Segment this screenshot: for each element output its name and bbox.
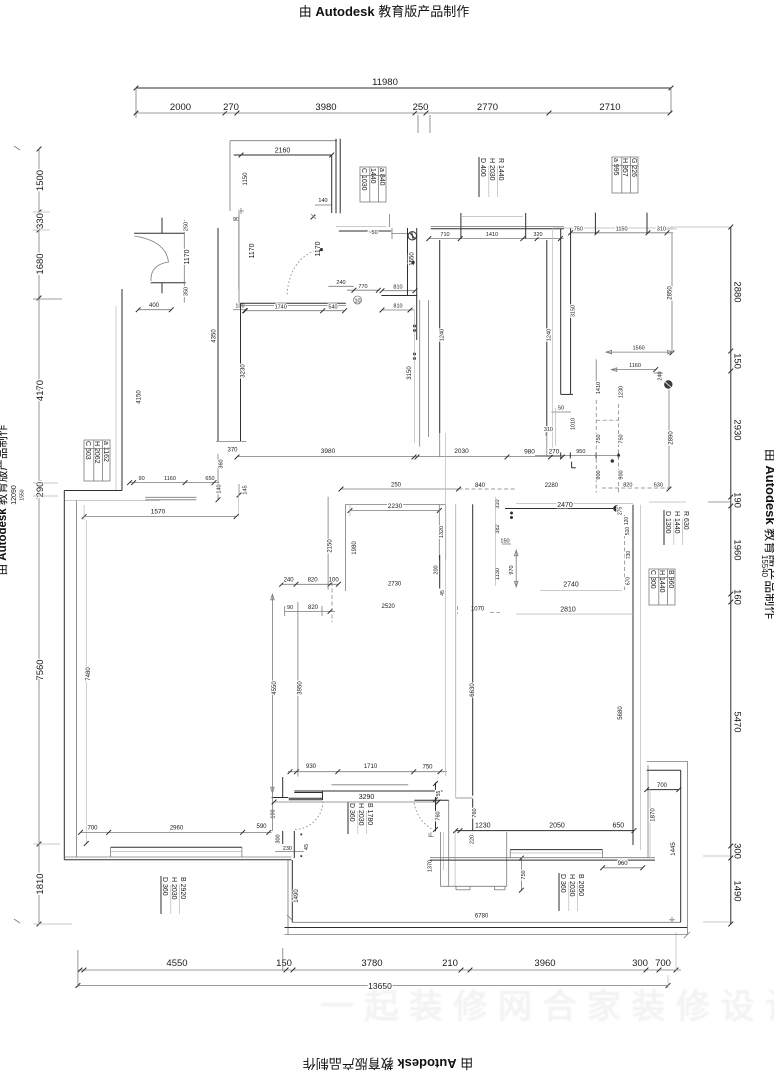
dim total bottom 13650: [78, 985, 668, 987]
dim 1160 with arrow: [611, 369, 656, 371]
svg-text:200: 200: [434, 565, 440, 574]
dim 3290: [274, 801, 438, 803]
svg-text:300: 300: [276, 834, 282, 843]
dashed verticals below bath2: [331, 582, 333, 622]
balcony corner marks: [669, 919, 675, 921]
svg-text:4150: 4150: [137, 390, 143, 404]
svg-text:1230: 1230: [619, 386, 625, 398]
svg-text:2710: 2710: [599, 102, 620, 113]
svg-text:900: 900: [619, 470, 625, 479]
dim 400 below entry: [138, 309, 171, 311]
wall jog left of balcony door: [272, 797, 289, 799]
wall pair left of middle room: [407, 228, 409, 296]
dashed dim row 820 630: [602, 487, 672, 489]
bath2 left wall: [344, 505, 346, 592]
svg-text:5680: 5680: [618, 706, 624, 720]
svg-text:810: 810: [393, 304, 402, 310]
svg-text:250: 250: [184, 222, 190, 231]
bedroom west wall pair: [455, 504, 457, 798]
svg-text:320: 320: [533, 232, 542, 238]
svg-text:970: 970: [509, 565, 515, 574]
svg-text:45: 45: [304, 844, 310, 850]
svg-text:900: 900: [596, 470, 602, 479]
living long dim 3950: [297, 602, 299, 777]
svg-text:1410: 1410: [486, 232, 498, 238]
living long dim 4550 arrows: [271, 594, 273, 793]
dim row 270 950: [535, 454, 619, 456]
left edge reference tick: [14, 146, 20, 150]
living bottom inner dim row 930 1710 750: [288, 771, 447, 773]
svg-text:750: 750: [596, 434, 602, 443]
dim column right: 2880 150 2930 190 1960 160 5470 300 1490: [730, 227, 732, 924]
svg-text:210: 210: [442, 958, 458, 969]
svg-text:2160: 2160: [275, 148, 291, 155]
corner mark below bath door: [428, 833, 430, 837]
svg-text:D 360: D 360: [348, 803, 355, 822]
svg-text:1130: 1130: [495, 568, 501, 580]
svg-text:190: 190: [271, 809, 277, 818]
dim row 1230 2050 650: [456, 830, 634, 832]
svg-text:1960: 1960: [732, 539, 743, 560]
wall kitchen left pair: [552, 228, 554, 457]
svg-text:1550: 1550: [20, 489, 26, 500]
svg-text:1490: 1490: [294, 889, 300, 903]
svg-text:590: 590: [256, 824, 267, 830]
dim 970 arrow vertical: [515, 550, 517, 587]
svg-text:1445: 1445: [671, 842, 677, 856]
svg-text:4550: 4550: [272, 681, 278, 695]
svg-text:140: 140: [217, 484, 223, 493]
dim 960 bedroom window: [603, 867, 643, 869]
svg-text:5470: 5470: [732, 711, 743, 732]
svg-text:820: 820: [623, 483, 632, 489]
svg-text:2810: 2810: [560, 607, 576, 614]
svg-text:3780: 3780: [361, 958, 382, 969]
bedroom top wall: [516, 503, 633, 505]
svg-text:1740: 1740: [275, 305, 287, 311]
svg-text:540: 540: [328, 305, 337, 311]
svg-text:6780: 6780: [475, 913, 489, 919]
svg-text:350: 350: [184, 287, 190, 296]
svg-text:50: 50: [558, 406, 564, 412]
svg-text:2230: 2230: [388, 503, 403, 510]
wall corridor second vertical: [238, 212, 240, 303]
svg-text:330: 330: [35, 213, 46, 229]
svg-text:670: 670: [626, 577, 632, 586]
svg-text:360: 360: [218, 459, 224, 468]
svg-text:300: 300: [732, 843, 743, 859]
svg-text:1170: 1170: [249, 243, 256, 258]
wall living south pair: [65, 856, 292, 858]
bedroom east wall: [632, 505, 634, 845]
dim column left: 1500 330 1680 4170 290 7560 1810: [38, 149, 40, 924]
svg-text:3980: 3980: [321, 448, 336, 455]
dim 2150 rotated: [327, 497, 329, 590]
svg-text:960: 960: [618, 861, 629, 867]
bath door swing arc dotted: [414, 803, 434, 830]
svg-text:700: 700: [87, 826, 98, 832]
svg-text:1240: 1240: [439, 329, 445, 341]
living bottom dim row 700 2960 590: [81, 831, 272, 833]
dim 1870 rotated: [649, 790, 651, 860]
svg-text:1170: 1170: [184, 249, 191, 264]
wall bath top: [339, 230, 391, 232]
svg-text:1500: 1500: [35, 170, 46, 191]
extension lines under 250 dim: [417, 115, 419, 133]
dim row 710 1410 320: [429, 238, 564, 240]
svg-text:2880: 2880: [732, 281, 743, 302]
dim 2850 kitchen right: [671, 234, 673, 353]
svg-text:820: 820: [308, 605, 319, 611]
svg-text:750: 750: [574, 227, 583, 233]
svg-text:1320: 1320: [439, 526, 445, 538]
outlet dots bedroom: [510, 512, 513, 515]
svg-text:980: 980: [524, 449, 535, 456]
extension ticks kitchen top: [594, 213, 596, 235]
svg-text:1410: 1410: [596, 382, 602, 394]
kitchen top faint line: [552, 227, 673, 229]
bay room right wall lines: [331, 155, 333, 213]
svg-text:650: 650: [205, 476, 214, 482]
balcony left wall: [287, 860, 289, 935]
wall middle room top pair: [431, 226, 564, 228]
svg-text:C 1030: C 1030: [360, 168, 367, 191]
svg-text:2520: 2520: [382, 604, 396, 610]
dim 2230: [350, 510, 439, 512]
balcony right wall: [680, 770, 682, 922]
dim 750 rotated: [520, 858, 522, 890]
dim total top 11980: [136, 87, 671, 89]
balcony bottom walls: [292, 921, 680, 923]
dim 1170 bay interior vertical: [237, 216, 239, 289]
svg-text:2030: 2030: [454, 448, 469, 455]
dim 1410 rotated kitchen: [595, 359, 597, 394]
main interior dim row y457: 3980 2030 980 270: [237, 456, 563, 458]
svg-text:400: 400: [149, 303, 160, 309]
svg-text:1870: 1870: [651, 808, 657, 822]
svg-text:160: 160: [732, 589, 743, 605]
svg-text:240: 240: [336, 280, 345, 286]
bedroom south wall pair: [430, 857, 655, 859]
svg-text:12090: 12090: [11, 485, 18, 505]
svg-text:760: 760: [436, 811, 442, 820]
svg-text:220: 220: [470, 835, 476, 844]
svg-text:2930: 2930: [732, 419, 743, 440]
wall outer northwest vertical pair: [121, 289, 123, 491]
balcony door swing arc dotted: [295, 802, 324, 830]
wall corridor left vertical: [217, 228, 219, 441]
svg-text:700: 700: [657, 783, 668, 789]
svg-text:7560: 7560: [35, 659, 46, 680]
dim 810 upper: [382, 290, 415, 292]
dim row 250/840 y489: [341, 488, 459, 490]
appliance dashed outline kitchen: [595, 400, 597, 493]
svg-text:D 1300: D 1300: [664, 511, 671, 534]
dim row 240 820 100 (mid-left): [282, 583, 339, 585]
svg-text:270: 270: [223, 102, 239, 113]
svg-text:D 360: D 360: [161, 877, 168, 896]
svg-text:250: 250: [413, 102, 429, 113]
dim 810 lower: [382, 309, 415, 311]
svg-text:由 Autodesk 教育版产品制作: 由 Autodesk 教育版产品制作: [0, 424, 9, 575]
grid bubble 10: [354, 296, 362, 304]
right extension lines: [649, 501, 686, 503]
svg-text:3960: 3960: [534, 958, 555, 969]
dim 2160 bay width: [234, 154, 332, 156]
svg-text:310: 310: [495, 499, 501, 508]
svg-text:100: 100: [329, 578, 340, 584]
svg-text:730: 730: [626, 551, 632, 560]
entry door top jamb: [134, 232, 185, 234]
svg-text:840: 840: [475, 483, 486, 489]
svg-text:2850: 2850: [668, 286, 674, 300]
dim 700 balcony: [647, 789, 679, 791]
bathroom fixture rectangle: [440, 832, 442, 886]
svg-text:230: 230: [283, 846, 292, 852]
svg-text:300: 300: [632, 958, 648, 969]
svg-text:950: 950: [576, 449, 585, 455]
svg-text:2740: 2740: [563, 582, 579, 589]
bath door dim line 55 760: [435, 783, 437, 832]
svg-text:D 400: D 400: [479, 158, 486, 177]
entry door bottom jamb: [151, 282, 186, 284]
svg-text:1370: 1370: [428, 860, 434, 872]
vertical dim 3150 hall: [414, 311, 416, 443]
bedroom window: [510, 849, 602, 851]
dim 100 small: [233, 309, 247, 311]
bay window room outline top-left: [230, 140, 337, 142]
svg-text:240: 240: [284, 578, 295, 584]
svg-text:370: 370: [227, 448, 238, 454]
svg-text:3950: 3950: [298, 681, 304, 695]
svg-text:630: 630: [654, 483, 663, 489]
svg-text:2150: 2150: [328, 539, 334, 553]
svg-text:2470: 2470: [557, 502, 573, 509]
wall hall top horizontal pair: [241, 302, 346, 304]
svg-text:3150: 3150: [571, 305, 577, 317]
svg-text:1680: 1680: [35, 253, 46, 274]
svg-text:3230: 3230: [241, 364, 247, 378]
svg-text:C 503: C 503: [84, 441, 91, 460]
balcony top right wall: [647, 760, 688, 762]
svg-text:510: 510: [625, 527, 631, 536]
svg-text:250: 250: [391, 483, 402, 489]
svg-text:2890: 2890: [669, 431, 675, 445]
left extension line at 1680/4170 boundary: [33, 298, 62, 300]
dim row bottom: 4550 150 3780 210 3960 300 700: [78, 969, 681, 971]
svg-text:1240: 1240: [546, 329, 552, 341]
bath2 right wall pair: [438, 505, 440, 561]
svg-text:1570: 1570: [151, 509, 166, 516]
bedroom SE corner lines: [647, 765, 649, 857]
dim 240: [328, 285, 354, 287]
dim 1560 arrows: [606, 351, 673, 353]
svg-text:90: 90: [139, 476, 145, 482]
dim 2880 extension: [666, 228, 677, 230]
svg-text:3980: 3980: [315, 102, 336, 113]
door pivot circle with hatch: [408, 232, 416, 240]
svg-text:4170: 4170: [35, 380, 46, 401]
bath left verticals: [389, 214, 391, 227]
svg-text:770: 770: [358, 284, 367, 290]
svg-text:2730: 2730: [388, 582, 402, 588]
svg-text:11980: 11980: [372, 77, 398, 88]
room2 door swing arc: [287, 250, 317, 294]
wardrobe dashed line: [624, 515, 626, 590]
svg-text:2280: 2280: [545, 483, 559, 489]
bay bottom corner marks: [238, 210, 244, 212]
bath west wall line: [448, 800, 450, 886]
svg-text:13650: 13650: [368, 981, 392, 991]
wall outer west vertical pair: [63, 491, 65, 860]
svg-text:C 300: C 300: [649, 570, 656, 589]
svg-text:D 360: D 360: [559, 874, 566, 893]
svg-text:145: 145: [242, 485, 248, 494]
svg-text:由 Autodesk 教育版产品制作: 由 Autodesk 教育版产品制作: [299, 4, 469, 19]
svg-text:1710: 1710: [364, 764, 378, 770]
svg-text:820: 820: [308, 578, 319, 584]
svg-text:275: 275: [618, 507, 624, 516]
dim 770: [347, 289, 380, 291]
extension ticks above middle room: [460, 213, 462, 239]
svg-text:1150: 1150: [243, 172, 249, 186]
dim row 90 820 lower: [285, 610, 335, 612]
svg-text:由 Autodesk 教育版产品制作: 由 Autodesk 教育版产品制作: [303, 1056, 473, 1071]
dim 50 kitchen: [551, 411, 571, 413]
svg-text:700: 700: [655, 958, 671, 969]
svg-text:750: 750: [619, 434, 625, 443]
svg-text:~50: ~50: [368, 230, 377, 236]
svg-text:140: 140: [318, 198, 327, 204]
dim 2890 kitchen right lower: [668, 390, 670, 489]
svg-text:930: 930: [306, 764, 317, 770]
svg-text:6630: 6630: [470, 683, 476, 697]
svg-text:650: 650: [612, 823, 624, 830]
svg-text:10: 10: [354, 299, 360, 305]
svg-text:120: 120: [624, 517, 630, 526]
svg-text:1980: 1980: [352, 541, 358, 555]
dim 140 bay right: [315, 204, 331, 206]
svg-text:1160: 1160: [629, 363, 641, 369]
svg-text:750: 750: [422, 765, 433, 771]
svg-text:1230: 1230: [475, 822, 491, 829]
svg-text:760: 760: [472, 808, 478, 817]
living room interior dim 7480: [85, 520, 87, 844]
svg-text:由 Autodesk 教育版产品制作: 由 Autodesk 教育版产品制作: [763, 449, 774, 619]
left edge reference tick bottom: [14, 919, 20, 923]
svg-text:2050: 2050: [549, 823, 565, 830]
window sill line living south zone: [332, 784, 409, 786]
svg-text:310: 310: [657, 227, 666, 233]
svg-text:710: 710: [440, 232, 449, 238]
svg-text:4350: 4350: [212, 329, 218, 343]
svg-text:15540: 15540: [760, 555, 769, 578]
svg-text:3290: 3290: [359, 794, 375, 801]
svg-text:1560: 1560: [632, 346, 644, 352]
svg-text:一起装修网合家装修设计: 一起装修网合家装修设计: [320, 988, 774, 1026]
bath2 top wall line: [345, 504, 445, 506]
entry door frame line: [183, 220, 185, 303]
svg-text:a 995: a 995: [612, 158, 619, 176]
dim row kitchen 750 1150 310: [571, 232, 674, 234]
svg-text:4550: 4550: [166, 958, 187, 969]
wall outer west top horizontal: [64, 490, 122, 492]
dim row top: 2000 270 3980 250 2770 2710: [136, 112, 670, 114]
entry door swing arcs: [135, 236, 169, 281]
svg-text:310: 310: [544, 427, 553, 433]
svg-text:3150: 3150: [407, 366, 413, 380]
entry dim row 90 1160 650: [130, 482, 220, 484]
shoe cabinet lines: [145, 496, 196, 498]
svg-text:810: 810: [393, 285, 402, 291]
outlet dots on dim line: [413, 325, 416, 328]
svg-text:270: 270: [549, 449, 560, 456]
svg-text:190: 190: [732, 492, 743, 508]
svg-text:150: 150: [276, 958, 292, 969]
svg-text:1010: 1010: [571, 418, 577, 430]
gas meter symbol: [664, 380, 672, 388]
living south-mid wall: [294, 790, 442, 792]
middle room interior dim lines 3130: [439, 240, 441, 433]
svg-text:750: 750: [521, 870, 527, 879]
svg-text:2770: 2770: [477, 102, 498, 113]
svg-text:55: 55: [436, 791, 442, 797]
svg-text:1150: 1150: [616, 227, 628, 233]
svg-text:7480: 7480: [86, 667, 92, 681]
svg-text:150: 150: [732, 353, 743, 369]
dim 1570 entry corridor: [84, 516, 236, 518]
window in living south wall: [111, 846, 242, 848]
balcony door leaf double line: [289, 797, 323, 799]
svg-text:382: 382: [495, 524, 501, 533]
svg-text:2960: 2960: [170, 826, 184, 832]
svg-text:2000: 2000: [170, 102, 191, 113]
svg-text:1160: 1160: [164, 476, 176, 482]
svg-text:1490: 1490: [732, 880, 743, 901]
svg-text:1810: 1810: [35, 873, 46, 894]
dim row 100 1740 540: [245, 310, 345, 312]
bath east wall bottom cap: [381, 295, 417, 297]
svg-text:290: 290: [35, 482, 46, 498]
svg-text:90: 90: [287, 605, 293, 611]
